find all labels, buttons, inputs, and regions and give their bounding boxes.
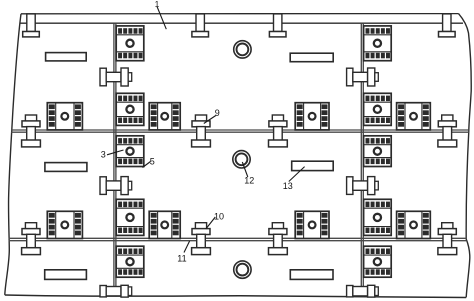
svg-text:9: 9 — [215, 108, 220, 118]
svg-text:12: 12 — [244, 176, 254, 186]
svg-text:5: 5 — [150, 157, 155, 167]
svg-text:3: 3 — [101, 150, 106, 160]
svg-text:10: 10 — [214, 211, 224, 221]
svg-text:1: 1 — [155, 0, 160, 9]
svg-text:13: 13 — [283, 181, 293, 191]
svg-text:11: 11 — [177, 254, 186, 264]
